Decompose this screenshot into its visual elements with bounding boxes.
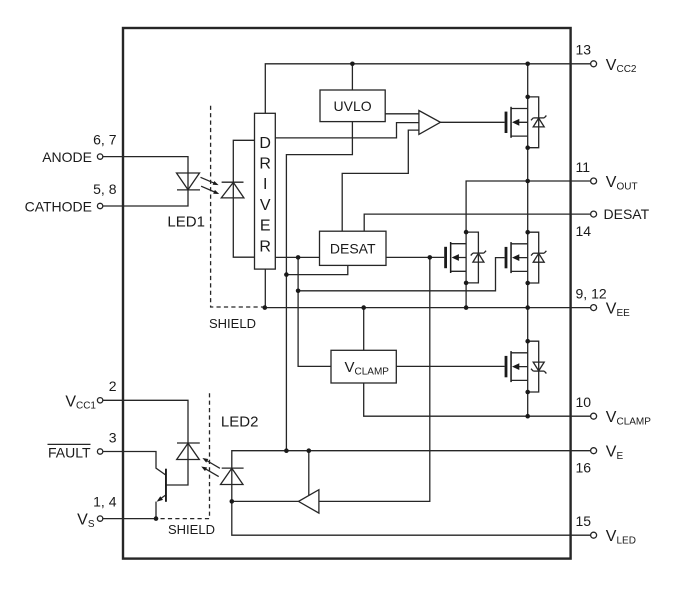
svg-text:VCC2: VCC2 (606, 57, 637, 75)
svg-text:6, 7: 6, 7 (93, 132, 117, 148)
svg-text:ANODE: ANODE (42, 149, 92, 165)
svg-text:2: 2 (109, 378, 117, 394)
svg-text:DESAT: DESAT (330, 240, 376, 256)
svg-text:14: 14 (576, 223, 592, 239)
svg-text:16: 16 (576, 460, 592, 476)
svg-text:DESAT: DESAT (604, 206, 650, 222)
svg-text:FAULT: FAULT (48, 445, 91, 461)
svg-text:10: 10 (576, 394, 592, 410)
svg-text:E: E (260, 218, 271, 235)
svg-text:5, 8: 5, 8 (93, 181, 117, 197)
svg-text:CATHODE: CATHODE (25, 199, 92, 215)
svg-text:VCLAMP: VCLAMP (606, 409, 651, 427)
svg-text:VE: VE (606, 444, 624, 462)
svg-text:VLED: VLED (606, 528, 636, 546)
svg-text:D: D (259, 135, 271, 152)
svg-text:VOUT: VOUT (606, 174, 638, 192)
svg-text:3: 3 (109, 430, 117, 446)
svg-text:13: 13 (576, 42, 592, 58)
svg-text:R: R (259, 155, 271, 172)
svg-text:VCC1: VCC1 (65, 393, 96, 411)
svg-text:VS: VS (77, 512, 95, 530)
svg-text:LED2: LED2 (221, 414, 259, 431)
svg-text:R: R (259, 239, 271, 256)
svg-text:15: 15 (576, 513, 592, 529)
svg-text:1, 4: 1, 4 (93, 494, 117, 510)
svg-text:LED1: LED1 (167, 214, 205, 231)
svg-text:SHIELD: SHIELD (168, 522, 215, 537)
svg-text:I: I (263, 176, 267, 193)
svg-text:V: V (260, 197, 271, 214)
svg-text:SHIELD: SHIELD (209, 316, 256, 331)
svg-text:9, 12: 9, 12 (576, 286, 607, 302)
svg-text:VEE: VEE (606, 301, 630, 319)
svg-text:11: 11 (576, 159, 591, 175)
svg-text:UVLO: UVLO (334, 98, 372, 114)
